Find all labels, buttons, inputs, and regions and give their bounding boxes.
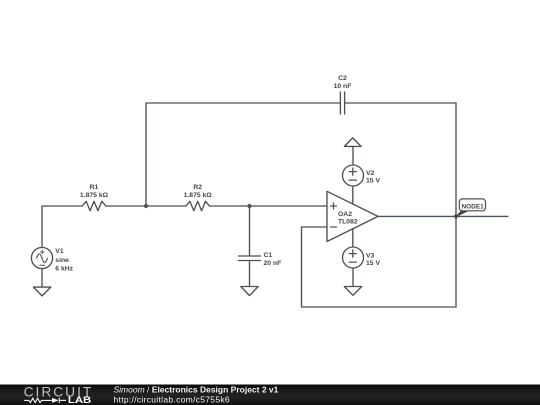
svg-text:6 kHz: 6 kHz [55,265,73,272]
wire node A segment: R1 right to R2 left [106,205,186,207]
junction node A [144,204,148,208]
resistor R2 [186,201,210,210]
ground (V1) [33,287,50,296]
svg-text:V3: V3 [366,253,375,260]
svg-text:C2: C2 [338,75,347,82]
wire V2 to VCC arrow [352,146,354,165]
footer bar [0,385,540,405]
svg-text:TL082: TL082 [338,219,358,226]
logo schematic line [24,398,66,403]
capacitor C2 [340,92,344,114]
wire op-amp V- pin [352,229,354,248]
svg-text:http://circuitlab.com/c5755k6: http://circuitlab.com/c5755k6 [114,394,230,404]
svg-text:15 V: 15 V [366,260,380,267]
wire right rail (output net, vertical) [455,103,457,307]
svg-text:OA2: OA2 [338,211,352,218]
svg-text:V1: V1 [55,248,64,255]
junction node B [247,204,251,208]
junction output node (NODE1) [454,214,458,218]
svg-text:V2: V2 [366,170,375,177]
wire node B segment: R2 right to op-amp + input [210,205,328,207]
ground (C1) [241,287,258,296]
svg-text:R2: R2 [193,184,202,191]
logo diode [52,398,59,403]
source V2 [343,165,364,186]
svg-text:1.875 kΩ: 1.875 kΩ [184,192,213,199]
wire node A up and right to C2 left plate [146,103,340,206]
wire op-amp V+ pin [352,186,354,205]
resistor R1 [82,201,106,210]
capacitor C1 [239,256,261,261]
svg-text:20 nF: 20 nF [264,260,282,267]
svg-text:NODE1: NODE1 [461,203,484,210]
wire C2 right plate to right rail [345,102,456,104]
source V3 [343,247,364,268]
wire C1 top lead [249,206,251,256]
wire C1 bottom lead to ground [249,261,251,287]
wire V1 top lead [41,206,43,247]
wire feedback bottom: rail down-left-up to op-amp - input [302,227,457,307]
flag NODE1 pointer [455,211,469,218]
svg-text:C1: C1 [264,252,273,259]
source V1 [31,247,52,268]
wire V3 to ground [352,268,354,287]
flag NODE1 box [459,199,485,211]
svg-text:Simoom / Electronics Design Pr: Simoom / Electronics Design Project 2 v1 [114,385,279,395]
wire input: V1 top to R1 left [42,205,82,207]
svg-text:LAB: LAB [68,394,92,405]
svg-text:10 nF: 10 nF [334,83,352,90]
wire output [378,215,508,217]
op-amp OA2 [327,191,378,241]
svg-text:15 V: 15 V [366,178,380,185]
ground (V3) [344,287,361,296]
svg-text:1.875 kΩ: 1.875 kΩ [80,192,109,199]
svg-text:R1: R1 [90,184,99,191]
power VCC arrow (above V2) [344,138,361,147]
svg-text:sine: sine [55,257,69,264]
wire V1 bottom lead to ground [41,269,43,287]
